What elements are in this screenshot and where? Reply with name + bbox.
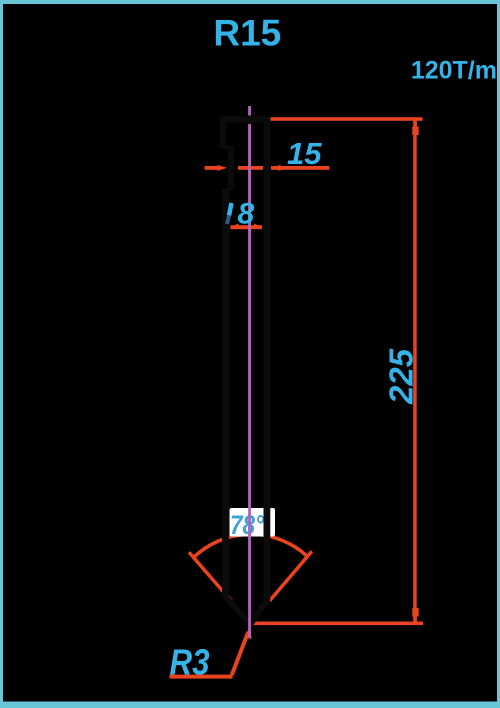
angle dimension arc (78°) [194, 534, 308, 557]
dimension 225 vertical line [413, 119, 417, 623]
tool blade left edge [222, 189, 229, 598]
dimension 15 middle segment [238, 166, 263, 170]
tool head left edge [220, 117, 226, 149]
border frame right [497, 0, 500, 708]
border frame bottom [0, 702, 500, 708]
dimension 225 bottom extension line [251, 622, 423, 626]
dimension 225 top extension line [271, 117, 423, 121]
tool right edge [263, 117, 270, 602]
R3 leader arrowhead [245, 626, 252, 639]
svg-text:78°: 78° [230, 510, 264, 540]
border frame left [0, 0, 3, 708]
tool left taper face [226, 597, 251, 624]
svg-text:225: 225 [383, 348, 420, 405]
tool groove jog upper [223, 146, 232, 149]
label 18 digit 1 (upper bright part) [229, 203, 232, 216]
arrow right (15 left) [218, 165, 228, 171]
tool groove jog lower [226, 188, 232, 191]
tool top edge [220, 117, 270, 123]
centerline main [248, 124, 251, 638]
punch tool outline (dark) [220, 117, 270, 625]
arrow up (225 top) [414, 121, 417, 127]
dimension 18 arrow nub right [254, 224, 262, 228]
svg-text:15: 15 [287, 136, 322, 171]
dimension 18 line [230, 225, 262, 229]
R3 leader horizontal [170, 675, 233, 679]
dimension 15 right line [271, 166, 329, 170]
arrow down (225 bottom) [412, 608, 418, 617]
svg-text:120T/m: 120T/m [411, 56, 497, 84]
white label box for 78° [230, 508, 276, 537]
angle side line left [194, 558, 232, 602]
svg-text:R15: R15 [213, 13, 281, 54]
dimension 15 left line [205, 166, 219, 170]
border frame top [0, 0, 500, 4]
R3 leader diagonal [232, 632, 248, 675]
label 18 digit 1 (lower dimmed part) [227, 216, 229, 225]
angle arc end tick left [189, 552, 198, 562]
angle arc end tick right [303, 551, 312, 561]
angle side line right [269, 557, 307, 602]
dimension 18 arrow nub left [230, 224, 238, 228]
tool neck left edge [228, 146, 234, 190]
tool right taper face [251, 601, 267, 624]
svg-text:R3: R3 [170, 642, 210, 683]
arrow left (15 right) [271, 165, 281, 171]
centerline top dash [248, 106, 251, 116]
svg-text:8: 8 [238, 197, 255, 230]
